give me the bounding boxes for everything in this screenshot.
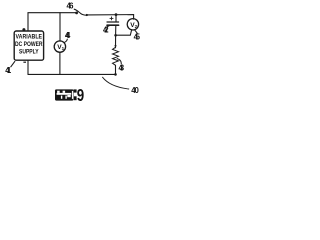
- leader for label 45: [135, 30, 138, 33]
- node: switch right terminal: [86, 14, 88, 16]
- svg-text:41: 41: [5, 66, 12, 75]
- wire V2 bottom return: [116, 30, 132, 36]
- wire V1 branch lower: [59, 52, 61, 74]
- capacitor C42 plates: [107, 21, 119, 23]
- wire V1 branch upper: [59, 13, 61, 42]
- power supply text: [15, 34, 43, 56]
- voltmeter V1 circle: [54, 41, 65, 52]
- wire supply bottom lead: [27, 61, 29, 75]
- voltmeter V2 circle: [127, 19, 138, 30]
- capacitor plus sign: [110, 17, 114, 21]
- svg-text:SUPPLY: SUPPLY: [19, 48, 39, 55]
- wire capacitor bottom lead: [115, 25, 117, 35]
- svg-text:DC POWER: DC POWER: [15, 41, 43, 48]
- leader for label 43: [117, 59, 121, 64]
- wire resistor bottom: [115, 65, 117, 74]
- svg-text:42: 42: [103, 25, 109, 34]
- node: bottom rail corner: [114, 73, 117, 76]
- figure caption FIG. 9: [55, 85, 84, 105]
- wire from supply top to top rail: [28, 13, 77, 31]
- svg-text:9: 9: [77, 85, 85, 105]
- svg-text:V1: V1: [57, 44, 64, 51]
- leader for label 42: [107, 25, 110, 26]
- svg-text:40: 40: [131, 86, 139, 95]
- svg-text:VARIABLE: VARIABLE: [16, 34, 43, 41]
- svg-text:45: 45: [134, 32, 141, 41]
- plus polarity mark at supply top: [22, 28, 25, 31]
- node: switch left terminal: [75, 12, 78, 15]
- leader for label 40: [103, 77, 129, 89]
- FIG. outline-letter blob: [55, 89, 77, 100]
- leader for label 44: [64, 39, 67, 42]
- svg-text:43: 43: [119, 63, 125, 72]
- power supply box outline: [14, 31, 43, 60]
- switch 46 blade: [74, 9, 87, 15]
- leader for label 41: [11, 61, 15, 66]
- node: resistor top junction dot: [115, 45, 117, 47]
- svg-text:46: 46: [67, 1, 75, 10]
- bottom rail wire: [28, 73, 116, 75]
- node: capacitor top junction: [115, 13, 118, 16]
- minus polarity mark at supply bottom: [23, 62, 26, 63]
- wire top rail right of switch: [87, 15, 134, 20]
- node: capacitor bottom junction: [114, 34, 117, 37]
- resistor R43 zigzag: [113, 47, 119, 65]
- wire capacitor top lead: [115, 15, 117, 22]
- wire to resistor top: [115, 35, 117, 48]
- svg-text:V2: V2: [130, 22, 137, 29]
- svg-text:44: 44: [65, 31, 71, 40]
